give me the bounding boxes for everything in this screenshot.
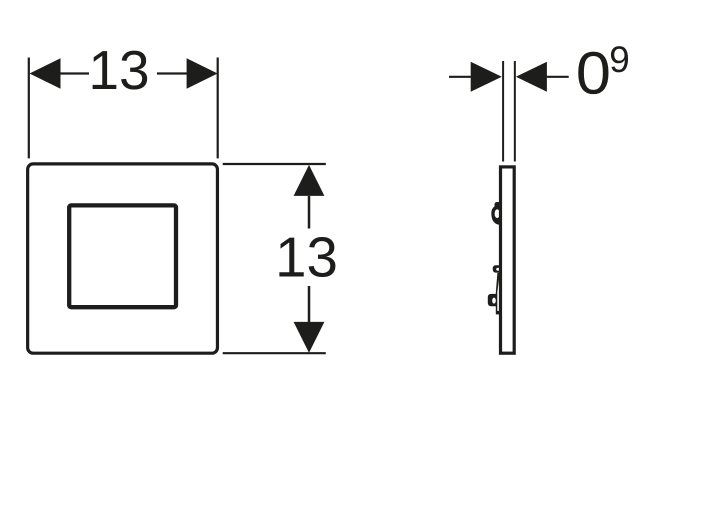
thickness dimension: left dimension line segment — [449, 76, 471, 78]
width dimension: left arrowhead — [30, 58, 61, 89]
front view: inner square button outline — [69, 205, 176, 307]
width dimension: right dimension line segment — [157, 72, 187, 74]
height dimension: value label 13 — [279, 237, 335, 277]
width dimension: left dimension line segment — [60, 72, 89, 74]
front view: outer plate outline — [28, 164, 218, 353]
side view: small middle clip — [493, 265, 502, 272]
width dimension: right arrowhead — [187, 58, 218, 89]
thickness dimension: value label 0 — [578, 52, 608, 94]
height dimension: bottom arrowhead — [294, 322, 325, 353]
width dimension: right extension line — [217, 58, 219, 159]
side view: plate body outline — [501, 167, 515, 353]
thickness dimension: right arrowhead pointing left — [516, 62, 547, 92]
thickness dimension: right dimension line segment — [547, 76, 569, 78]
width dimension: left extension line — [28, 58, 30, 159]
height dimension: upper dimension line segment — [308, 196, 311, 229]
thickness dimension: left extension line — [502, 61, 504, 162]
height dimension: top arrowhead — [294, 165, 325, 196]
height dimension: top extension line — [223, 163, 326, 165]
side view: lower hook clip — [488, 294, 497, 306]
thickness dimension: left arrowhead pointing right — [471, 62, 502, 92]
height dimension: lower dimension line segment — [308, 286, 311, 322]
thickness dimension: superscript 9 — [611, 46, 628, 72]
thickness dimension: right extension line — [514, 61, 516, 162]
side view: upper mounting clip — [491, 202, 502, 225]
width dimension: value label 13 — [93, 51, 148, 90]
side view: leaf spring bar — [496, 273, 500, 311]
height dimension: bottom extension line — [223, 352, 326, 354]
side view: hook foot connecting to plate — [496, 311, 503, 315]
